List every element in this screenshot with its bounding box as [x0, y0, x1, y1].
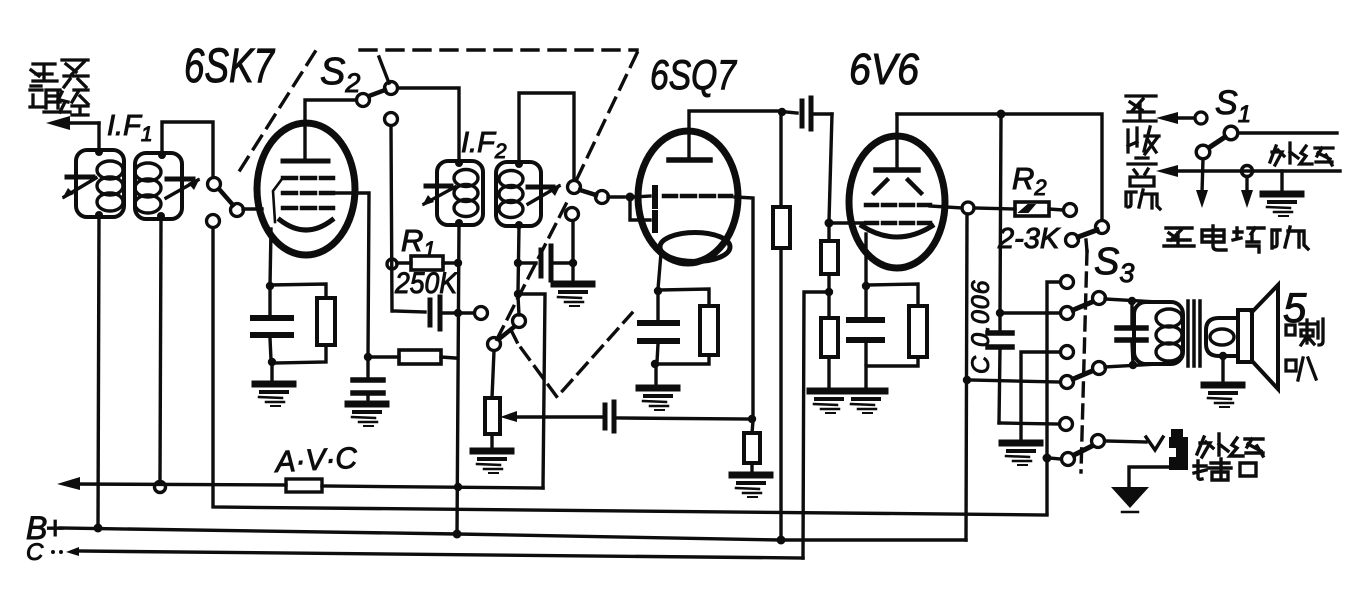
IF1 primary trimmer capacitor [67, 175, 93, 180]
node 6V6 screen terminal circle [962, 202, 974, 214]
switch S3 contact f [1061, 376, 1074, 389]
6SQ7 control grid dashes [664, 194, 731, 199]
node IF1 secondary top [158, 151, 166, 159]
6V6 plate bar [876, 167, 918, 173]
ground 6SQ7 cathode [639, 388, 677, 410]
arrow down to telephone right [1241, 190, 1253, 208]
6SK7 internal suppressor link [273, 179, 282, 222]
svg-text:C: C [26, 539, 44, 566]
switch S2b upper contact [568, 181, 581, 194]
jack tip spring V [1146, 437, 1163, 450]
node B+ IF1 junction [94, 524, 103, 533]
wire 6V6 screen out right [930, 206, 962, 208]
jack wire from S3 [1105, 441, 1146, 442]
wire 6SK7 cathode down [270, 229, 271, 286]
capacitor screen bypass [366, 361, 369, 379]
node diode return junction [569, 259, 577, 267]
node plate load to B+ bus [777, 536, 786, 545]
switch S1 contact upper [1195, 112, 1207, 124]
wire S2b lower contact to ground [571, 221, 574, 281]
node 6SQ7 plate junction [778, 108, 786, 116]
node 6SQ7 cathode bottom [651, 360, 659, 368]
switch S3 contact c [1061, 307, 1074, 320]
wire S2c pivot up [518, 296, 519, 315]
svg-text:2-3K: 2-3K [997, 223, 1061, 255]
switch S3 contact e [1061, 346, 1074, 359]
switch S1 arm [1210, 137, 1225, 147]
node transformer cap bottom [1129, 361, 1137, 369]
IF1 secondary coil [135, 163, 161, 213]
node bus riser junction [1043, 454, 1052, 463]
dashed gang line top horizontal [360, 48, 637, 51]
tube 6V6 envelope [849, 136, 945, 268]
node IF2 secondary lower junction [514, 259, 522, 267]
wire junction to S3 contact d [1002, 311, 1060, 314]
6SK7 grid row 3 control [283, 206, 333, 211]
node IF2 primary bottom [455, 219, 463, 227]
wire S2 to IF2 primary top [398, 88, 459, 161]
ground 6SK7 cathode [255, 384, 293, 406]
node 6SK7 cathode junction [266, 282, 274, 290]
output transformer primary coil [1156, 309, 1182, 361]
IF2 primary coil [454, 170, 478, 217]
switch S2b grid contact circle [596, 191, 609, 204]
6SQ7 cathode oval [660, 233, 730, 262]
switch S3 contact to transformer bottom [1093, 362, 1106, 375]
jack phone plug body [1169, 437, 1188, 470]
node AVC junction [454, 483, 462, 491]
label 喇 [1286, 319, 1323, 345]
node plate line junction [997, 110, 1006, 119]
capacitor AF coupling to 6SQ7 grid [603, 405, 608, 428]
wire 6V6 cathode to ground [864, 366, 867, 389]
output transformer core [1186, 301, 1190, 366]
6V6 beam plate left [874, 180, 887, 193]
node 6SQ7 grid junction [626, 193, 635, 202]
resistor AVC decoupling [286, 479, 322, 492]
output transformer primary box [1134, 302, 1183, 364]
wire tone capacitor branch [1000, 116, 1001, 312]
switch S2b arm [580, 190, 596, 195]
svg-text:S3: S3 [1094, 241, 1134, 288]
wire S1 pole to outside line [1238, 131, 1337, 134]
node open circle on AVC line [155, 482, 166, 493]
wire junction up to IF2 secondary bottom [518, 227, 519, 292]
arrow down to telephone left [1196, 190, 1208, 208]
wire B+ bus [60, 528, 966, 540]
switch S2a arm [219, 189, 233, 205]
ground screen bypass [348, 404, 386, 426]
wire 6SQ7 cathode down [658, 253, 661, 289]
resistor 6SQ7 cathode [660, 289, 709, 306]
wire bias junction left and down to C- bus [803, 292, 827, 558]
wire IF1 primary bottom to B+ bus [98, 217, 99, 528]
wire IF2 primary bottom long vertical to B+ [457, 225, 459, 534]
wire cap bottom to S3 contact g [999, 423, 1059, 424]
speaker cone [1252, 285, 1278, 389]
switch S3 contact to jack [1092, 435, 1105, 448]
tube 6SK7 envelope [257, 123, 355, 255]
wire contact b to bus riser [1047, 282, 1060, 513]
wire C- bus dashes [51, 550, 55, 554]
resistor 6V6 grid lower [827, 294, 830, 318]
wire IF1 secondary bottom to AVC line [160, 218, 161, 481]
6SQ7 diode plate 2 [630, 201, 650, 220]
IF1 secondary trimmer capacitor [167, 177, 193, 182]
svg-text:A·V·C: A·V·C [273, 442, 359, 479]
switch S2c open contact [475, 307, 488, 320]
node B+ IF2 junction [453, 530, 462, 539]
6SK7 grid row 1 [283, 176, 333, 181]
label 外线 lower [1197, 434, 1263, 457]
wire C- bus [76, 551, 803, 558]
svg-text:6SK7: 6SK7 [184, 40, 276, 93]
svg-text:R2: R2 [1012, 161, 1047, 200]
wire IF1 secondary top to S2a [162, 122, 213, 177]
switch S3 contact h [1062, 453, 1075, 466]
switch S2a contact to 6SK7 grid [231, 204, 244, 217]
capacitor 6V6 cathode bypass [864, 290, 867, 319]
6V6 grid row 1 [866, 203, 930, 208]
label 外线 upper [1270, 143, 1333, 165]
switch S2 plate contact circle [357, 94, 370, 107]
6SK7 grid row 2 screen [283, 191, 333, 196]
switch S2 lower contact circle [385, 113, 398, 126]
ground jack solid triangle [1111, 487, 1149, 508]
node junction on IF2 feed line [454, 309, 462, 317]
wire transformer bottom [1105, 364, 1158, 367]
6SK7 cathode arc [280, 220, 332, 230]
resistor 6SK7 cathode bias [270, 284, 326, 298]
node transformer cap top [1128, 297, 1136, 305]
switch S2c arm [499, 327, 514, 339]
ground 6V6 cathode [847, 391, 885, 413]
IF2 secondary coil [499, 171, 523, 218]
switch S1 pole contact [1224, 126, 1238, 140]
node 6SK7 screen junction [364, 353, 372, 361]
wire grid contact to diode junction [608, 195, 624, 198]
label 经变调级 (to converter stage) [30, 60, 88, 115]
IF1 primary winding box [76, 150, 124, 217]
switch S3 contact to transformer top [1093, 292, 1106, 305]
tube 6SQ7 envelope [638, 131, 738, 263]
switch S2c pot contact [488, 338, 501, 351]
wire outside line lower [1170, 169, 1340, 172]
wire jack sleeve to ground [1129, 467, 1169, 487]
switch S3 arm f [1073, 371, 1092, 379]
switch S3a arm pivot contact [1066, 234, 1079, 247]
label 至收音机 vertical [1124, 96, 1160, 209]
node R1 right junction [454, 259, 462, 267]
wire junction to AVC feed [518, 294, 545, 488]
wire 6SQ7 plate up and right [689, 111, 781, 157]
label 至电话机 [1164, 226, 1308, 252]
capacitor 6SQ7 diode return [522, 261, 536, 264]
node 6V6 grid junction [825, 219, 834, 228]
switch S3 arm c [1073, 302, 1092, 310]
node 6SK7 cathode bottom junction [268, 358, 276, 366]
node tone branch junction [996, 309, 1004, 317]
ground speaker voice coil [1204, 385, 1242, 407]
svg-text:I.F1: I.F1 [107, 110, 153, 146]
wire 6V6 plate to top line [895, 114, 898, 167]
svg-text:6SQ7: 6SQ7 [650, 51, 737, 98]
wire 6V6 cathode down [864, 234, 867, 284]
wiper arrow of volume pot [500, 411, 517, 422]
node 6SQ7 cathode junction [654, 287, 662, 295]
resistor screen dropping [371, 355, 399, 358]
wire 6V6 plate line to S3 [897, 114, 1102, 220]
node IF2 secondary bottom [515, 221, 523, 229]
resistor 6V6 grid upper [827, 227, 830, 241]
switch S2 arm top [369, 90, 385, 96]
capacitor across output transformer primary [1130, 303, 1133, 326]
wire IF2 secondary top to S2b [519, 93, 574, 180]
wire 6V6 screen down to B+ bus [966, 214, 967, 540]
ground diode return [554, 284, 592, 306]
6SK7 plate bar [283, 159, 328, 164]
arrow to radio receiver lower [1156, 165, 1178, 177]
wire junction to S3 contact f [969, 380, 1060, 382]
wire S1 lower contact down [1202, 159, 1203, 193]
switch S3 contact g [1060, 418, 1073, 431]
node grid leak junction [748, 415, 756, 423]
node IF2 secondary top [515, 160, 523, 168]
wire secondary to ground [1221, 358, 1224, 383]
S2 arm linkage stub [379, 57, 389, 83]
dashed gang line S3 [1081, 251, 1087, 472]
resistor 6V6 cathode [868, 284, 918, 306]
capacitor C 0.006 [998, 315, 1001, 331]
IF2 secondary trimmer capacitor [528, 185, 553, 190]
node secondary bottom junction [1219, 352, 1227, 360]
svg-text:S1: S1 [1215, 84, 1251, 128]
label 插口 [1194, 459, 1256, 480]
switch S3a arm [1078, 230, 1097, 237]
svg-text:S2: S2 [320, 51, 360, 98]
switch S2c pivot contact [513, 315, 526, 328]
6SQ7 plate bar [669, 157, 710, 163]
capacitor interstage coupling [786, 112, 797, 113]
IF1 primary coil [97, 161, 123, 211]
capacitor AVC coupling to pot [394, 311, 425, 312]
ground volume pot [473, 451, 511, 473]
IF1 secondary winding box [135, 153, 182, 219]
wire to ground [654, 366, 657, 386]
wire contact h stub [1049, 458, 1061, 459]
arrow to radio receiver upper [1156, 112, 1178, 124]
6SQ7 diode plate 1 [634, 196, 650, 197]
node IF2 primary top [455, 159, 463, 167]
svg-text:C 0.006: C 0.006 [967, 279, 995, 374]
switch S2a lower contact [207, 215, 220, 228]
wire 6V6 grid into tube [833, 221, 866, 224]
ground grid leak [732, 475, 770, 497]
capacitor 6SQ7 cathode bypass [656, 295, 659, 322]
switch S3 arm h [1074, 446, 1092, 455]
AVC bus arrow [57, 477, 80, 490]
label 叭 [1286, 358, 1316, 380]
capacitor 6SK7 cathode bypass [268, 289, 271, 317]
resistor 6SQ7 grid leak [752, 421, 753, 433]
wire S2a lower contact down to lower bus [213, 228, 1047, 515]
potentiometer volume control [492, 351, 494, 398]
wire 6SK7 screen to bypass [328, 193, 369, 357]
node IF1 primary top [95, 148, 103, 156]
switch S1 contact lower [1196, 145, 1210, 159]
wire S2a to 6SK7 control grid [243, 207, 262, 210]
IF2 primary winding box [437, 161, 483, 225]
node R1 left terminal circle [387, 259, 397, 269]
wire S2 lower contact down to R1 [391, 126, 392, 311]
svg-text:250K: 250K [394, 267, 459, 300]
node junction above pot switch [514, 290, 522, 298]
wire IF1 primary top lead [97, 123, 100, 152]
wire coupling cap down to 6V6 grid [829, 114, 832, 221]
arrow to converter stage [46, 116, 70, 130]
node IF1 secondary bottom [157, 212, 165, 220]
wire 6SK7 plate to S2 [305, 100, 356, 158]
switch S2a contact upper [208, 178, 221, 191]
output transformer secondary [1206, 318, 1237, 356]
IF2 secondary winding box [496, 162, 541, 226]
6V6 grid row 2 [866, 221, 930, 226]
switch S3a contact to plate line [1096, 221, 1109, 234]
wire outside line to ground [1280, 171, 1283, 192]
node 6V6 grid bias junction [825, 288, 833, 296]
wire 6SQ7 grid out right and down to leak [735, 197, 753, 418]
ground S3 contact e [1002, 443, 1040, 465]
resistor R1 250K [397, 261, 411, 264]
wire transformer top [1105, 299, 1158, 302]
node screen line junction [963, 376, 971, 384]
wire AVC bus [72, 484, 286, 485]
wire contact e to ground [1021, 352, 1060, 441]
node 6V6 cathode junction [862, 282, 870, 290]
switch S2 contact to IF2 [385, 82, 398, 95]
switch S3a contact from R2 [1064, 204, 1077, 217]
ground 6V6 grid return [810, 391, 848, 413]
resistor R2 [974, 208, 1015, 209]
dashed gang line upper left diagonal [240, 44, 320, 170]
6V6 cathode arc [862, 226, 932, 237]
node outside line tap circle [1242, 166, 1253, 177]
node IF1 primary bottom [95, 211, 103, 219]
resistor 6SQ7 plate load [779, 112, 782, 207]
switch S2b lower contact [566, 208, 579, 221]
speaker driver [1238, 310, 1252, 362]
switch S3 contact b [1061, 276, 1074, 289]
dashed gang line diagonal to S2b [575, 53, 637, 183]
wire tap down [1245, 177, 1248, 193]
ground outside line [1263, 194, 1301, 216]
svg-text:I.F2: I.F2 [461, 127, 507, 163]
IF2 primary trimmer capacitor [426, 184, 451, 189]
dashed gang line V mark [521, 313, 632, 397]
dashed gang line S2b to pot switch [496, 204, 566, 341]
svg-text:6V6: 6V6 [849, 45, 919, 94]
wire to ground [270, 364, 273, 381]
6V6 beam plate right [908, 180, 921, 193]
wire AVC bus right [322, 486, 543, 488]
